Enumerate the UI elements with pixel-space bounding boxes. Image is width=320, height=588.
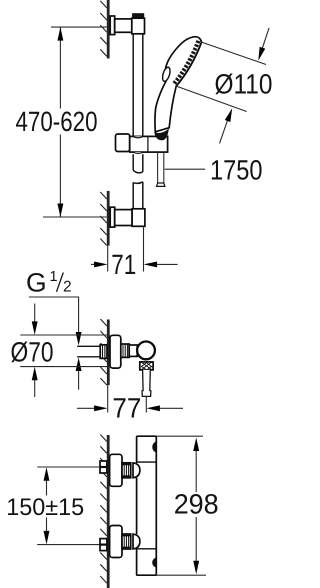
dim 71 left arrow — [91, 263, 97, 265]
holder bump bottom — [133, 152, 143, 153]
upper union hex — [100, 461, 107, 473]
pause button — [161, 66, 171, 82]
dim 77 left arrow — [77, 407, 95, 409]
svg-text:77: 77 — [112, 392, 141, 423]
dim 298 bottom extension — [156, 574, 206, 576]
dim 470-620 line + arrows — [59, 27, 61, 217]
svg-text:1: 1 — [50, 269, 58, 285]
leader G1/2 — [29, 297, 79, 333]
wall hatching bottom — [100, 435, 107, 584]
shower face edge — [176, 42, 201, 86]
dim 71 left extension (wall continuation) — [107, 246, 109, 272]
top bracket arm — [115, 19, 132, 32]
holder body — [130, 136, 168, 152]
upper union escutcheon — [110, 454, 122, 486]
outlet hose piece — [142, 370, 151, 397]
svg-text:470-620: 470-620 — [16, 106, 98, 137]
svg-text:150±15: 150±15 — [6, 494, 84, 521]
svg-text:71: 71 — [111, 249, 136, 280]
svg-text:2: 2 — [63, 279, 72, 296]
ball joint — [137, 342, 155, 360]
dim 298 top extension — [156, 435, 203, 437]
dim 77 right arrow — [159, 407, 183, 409]
dim Ø110 extension line lower — [176, 86, 247, 112]
upper union nut — [122, 463, 131, 478]
spray nozzle band — [174, 41, 199, 84]
dim 77 left extension (wall continuation) — [107, 385, 109, 412]
dim 77 right extension — [145, 397, 147, 413]
holder knob — [116, 134, 130, 152]
dim 298 line + arrows — [195, 450, 197, 492]
leader 1750 — [165, 168, 206, 170]
handle cone end (dark) — [154, 128, 169, 140]
outlet nut knurled — [140, 362, 153, 370]
dim 71 right arrow — [156, 263, 178, 265]
holder joint line — [147, 136, 149, 152]
lower union hex — [100, 539, 107, 551]
body knob crescent top — [152, 442, 155, 453]
svg-text:Ø110: Ø110 — [215, 69, 273, 100]
dim 150 lower extension — [37, 544, 100, 546]
svg-text:Ø70: Ø70 — [11, 337, 54, 368]
shower hose — [158, 152, 164, 183]
holder saddle top — [133, 136, 143, 137]
dim Ø70 bottom extension — [20, 366, 110, 368]
wall middle segment — [107, 320, 110, 386]
top bracket flange — [110, 16, 115, 35]
dim Ø110 arrow upper — [262, 28, 270, 51]
lower union nut — [122, 534, 131, 549]
dim 470-620 bottom extension line — [43, 216, 107, 218]
svg-text:G: G — [26, 267, 47, 297]
dim Ø110 extension line upper — [201, 42, 266, 65]
dim 150 upper extension — [37, 466, 100, 468]
wall lower segment — [107, 191, 110, 246]
neck plain section — [129, 345, 137, 356]
top bracket clamp — [132, 18, 145, 34]
upper union dome — [133, 463, 140, 478]
rail upper segment — [133, 34, 143, 137]
thermostat body — [137, 436, 157, 575]
lower bracket flange — [110, 207, 115, 227]
dim Ø70 top extension — [20, 334, 110, 336]
dim 150 line + arrows — [46, 480, 48, 496]
leader G1/2 lower arrow — [78, 370, 80, 389]
rail lower segment — [133, 182, 143, 209]
lower union escutcheon — [110, 526, 122, 558]
body joint lines — [137, 462, 157, 549]
lower bracket arm — [115, 210, 132, 226]
dim 71 right extension — [143, 226, 145, 271]
dim Ø110 arrow lower — [220, 119, 229, 143]
dim Ø70 arrows — [34, 304, 36, 323]
wall top segment — [107, 0, 110, 59]
body knob crescent bottom — [152, 558, 155, 568]
rail break edge lower — [133, 182, 143, 184]
top bracket cap — [133, 14, 144, 19]
wall bottom segment — [107, 435, 110, 588]
dim 470-620 top extension line — [51, 26, 107, 28]
wall hatching top — [100, 1, 107, 56]
svg-text:1750: 1750 — [210, 155, 263, 186]
supply hex nut — [100, 345, 107, 359]
neck knurled section — [121, 344, 129, 357]
svg-text:298: 298 — [174, 489, 219, 520]
supply pipe — [77, 346, 100, 357]
lower bracket clamp — [132, 209, 145, 227]
escutcheon — [110, 335, 121, 368]
hand shower head + handle outline — [155, 37, 201, 132]
wall hatching middle — [100, 319, 107, 385]
hose end piece — [157, 183, 165, 186]
wall hatching lower — [100, 192, 107, 246]
rail middle segment with break — [133, 154, 143, 172]
rail break edge upper — [133, 170, 143, 173]
lower union dome — [133, 534, 140, 549]
